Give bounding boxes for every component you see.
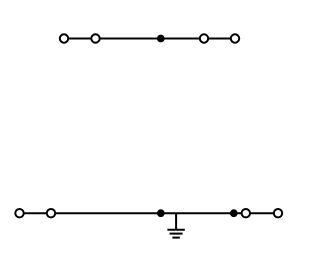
terminal circle B2 (bottom rail) xyxy=(47,209,55,217)
wire: bottom rail segment between terminals 1 and 2 xyxy=(20,212,52,214)
wire: top rail main segment from terminal 2 to terminal 3 xyxy=(96,38,205,40)
wire: top rail segment between terminals 3 and 4 xyxy=(204,38,235,40)
terminal circle B1 (bottom rail) xyxy=(15,209,23,217)
terminal circle B4 (bottom rail) xyxy=(274,209,282,217)
ground xyxy=(167,213,184,237)
terminal circle B3 (bottom rail) xyxy=(242,209,250,217)
wire: bottom rail segment between terminals 3 and 4 xyxy=(246,212,278,214)
terminal circle T2 (top rail) xyxy=(91,34,99,42)
terminal circle T4 (top rail) xyxy=(231,34,239,42)
terminal circle T1 (top rail) xyxy=(60,34,68,42)
terminal circle T3 (top rail) xyxy=(200,34,208,42)
wire: bottom rail main segment from terminal 2 to terminal 3 xyxy=(51,212,246,214)
junction dot (top rail node) xyxy=(157,35,165,43)
wire: top rail segment between terminals 1 and 2 xyxy=(64,38,96,40)
junction dot (bottom rail centre node) xyxy=(157,209,165,217)
junction dot (bottom rail right node) xyxy=(230,209,238,217)
